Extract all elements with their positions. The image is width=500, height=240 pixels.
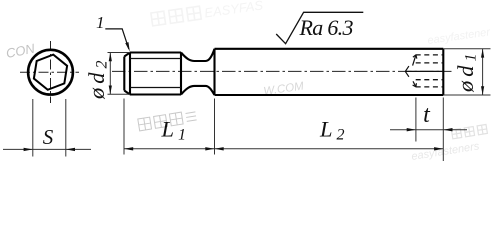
svg-text:S: S xyxy=(43,125,54,149)
svg-text:Ra 6.3: Ra 6.3 xyxy=(299,15,354,40)
svg-text:L2: L2 xyxy=(319,117,349,144)
svg-text:ød2: ød2 xyxy=(84,57,111,101)
svg-text:1: 1 xyxy=(96,13,105,32)
svg-text:easyfasteners: easyfasteners xyxy=(411,140,481,163)
svg-text:EASYFAS: EASYFAS xyxy=(203,0,264,20)
svg-text:t: t xyxy=(423,102,431,128)
svg-text:easyfastener: easyfastener xyxy=(427,26,492,47)
svg-text:L1: L1 xyxy=(161,117,191,144)
svg-text:ød1: ød1 xyxy=(453,50,480,94)
